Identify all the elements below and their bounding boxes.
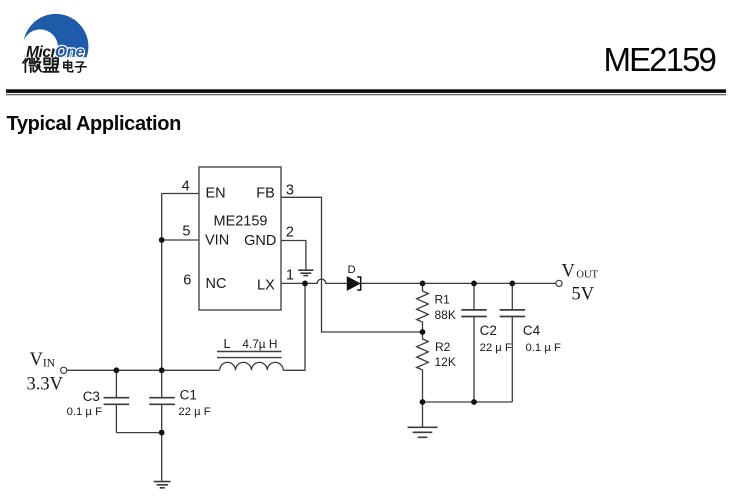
capacitor C1 leads and plates (149, 370, 175, 432)
hanzi dian (64, 60, 73, 72)
wire left rail down to input line (161, 240, 163, 370)
node C4 top (509, 281, 515, 287)
ground under R2 (408, 402, 438, 437)
IC U1 ME2159 box (199, 167, 281, 310)
hanzi zi (75, 62, 86, 72)
wire diode cathode to output terminal (361, 282, 556, 284)
svg-text:One: One (55, 44, 85, 61)
svg-text:NC: NC (206, 276, 227, 292)
svg-text:L: L (224, 337, 231, 351)
node R1 top (420, 281, 426, 287)
svg-text:FB: FB (256, 186, 275, 202)
node R1/R2 feedback junction (420, 329, 426, 335)
svg-text:C2: C2 (480, 323, 497, 338)
svg-text:22 µ F: 22 µ F (480, 342, 512, 354)
terminal VOUT circle (556, 280, 562, 286)
svg-text:ME2159: ME2159 (213, 213, 267, 229)
ground at GND pin (298, 270, 313, 275)
svg-text:R1: R1 (435, 292, 451, 306)
hanzi wei (23, 58, 41, 72)
svg-text:3.3V: 3.3V (27, 375, 64, 395)
capacitor C3 leads and plates (104, 370, 130, 432)
wire VIN input line (67, 369, 220, 371)
svg-text:5: 5 (182, 224, 190, 240)
svg-text:6: 6 (183, 272, 191, 288)
svg-text:4.7µ H: 4.7µ H (242, 337, 277, 351)
resistor R1 (417, 283, 429, 332)
svg-text:12K: 12K (435, 355, 456, 369)
svg-text:EN: EN (206, 186, 226, 202)
svg-text:C3: C3 (83, 389, 100, 404)
svg-text:VOUT: VOUT (562, 261, 599, 281)
node LX / inductor junction (302, 281, 308, 287)
svg-text:R2: R2 (435, 340, 451, 354)
logo chinese characters 微盟电子 (hand drawn strokes) (23, 58, 86, 73)
svg-text:VIN: VIN (205, 233, 229, 249)
resistor R2 (417, 332, 429, 402)
node C2 bottom (471, 399, 477, 405)
svg-text:0.1 µ F: 0.1 µ F (67, 406, 102, 418)
node C2 top (471, 281, 477, 287)
wire GND pin 2 (281, 241, 306, 270)
svg-text:0.1 µ F: 0.1 µ F (526, 342, 561, 354)
svg-text:C1: C1 (180, 387, 197, 402)
svg-text:ME2159: ME2159 (603, 41, 715, 78)
wire C3 bottom to C1 bottom (116, 432, 161, 434)
svg-text:5V: 5V (572, 284, 595, 304)
hanzi meng (43, 58, 59, 72)
svg-text:3: 3 (286, 182, 294, 198)
node input line / rail junction (159, 367, 165, 373)
wire LX pin 1 with hop over FB line (281, 279, 347, 283)
wire inductor to LX (283, 283, 305, 370)
wire bottom output ground line (423, 401, 513, 403)
svg-text:Typical Application: Typical Application (7, 113, 181, 135)
svg-text:GND: GND (244, 233, 276, 249)
svg-text:88K: 88K (435, 308, 456, 322)
node C3 tap (114, 367, 120, 373)
node VIN pin junction (159, 237, 165, 243)
wire FB pin 3 net down to feedback tap (281, 197, 423, 332)
svg-text:2: 2 (286, 225, 294, 241)
diode D body (347, 277, 361, 290)
header rule thin (6, 94, 726, 95)
terminal VIN circle (61, 367, 67, 373)
svg-text:LX: LX (257, 277, 275, 293)
svg-text:D: D (348, 264, 356, 276)
svg-text:22 µ F: 22 µ F (178, 406, 210, 418)
svg-text:C4: C4 (523, 323, 541, 338)
node C3/C1 ground junction (159, 430, 165, 436)
svg-text:4: 4 (182, 179, 190, 195)
wire EN pin 4 to left rail (162, 194, 199, 241)
junction dots (114, 237, 516, 435)
wire VIN pin 5 (162, 239, 199, 241)
svg-text:1: 1 (286, 268, 294, 284)
capacitor C4 (500, 283, 525, 402)
svg-text:VIN: VIN (30, 350, 56, 370)
ground under C1/C3 (154, 433, 171, 488)
capacitor C2 (461, 283, 487, 402)
inductor L 4.7uH coil (217, 352, 283, 371)
header rule thick (6, 89, 726, 93)
node R2 bottom (420, 399, 426, 405)
logo MicrOne (18, 14, 96, 83)
